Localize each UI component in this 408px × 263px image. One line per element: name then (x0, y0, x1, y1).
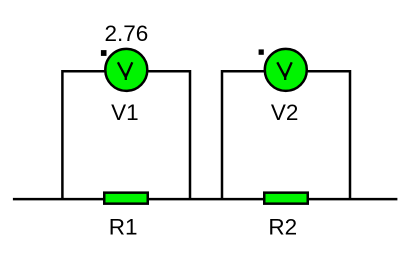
value label 2.76 (V1 reading) (105, 21, 149, 46)
voltmeter V2 (265, 49, 307, 91)
resistor R2 (263, 191, 309, 205)
wire bottom bus (13, 198, 398, 201)
label R2 (268, 214, 297, 239)
svg-text:V2: V2 (271, 100, 299, 125)
label R1 (109, 214, 138, 239)
voltmeter V2 junction dot (259, 49, 264, 54)
svg-text:V1: V1 (111, 100, 139, 125)
wire right loop (V2 across R2) (222, 71, 350, 199)
voltmeter V1 (105, 49, 147, 91)
svg-text:R2: R2 (268, 214, 297, 239)
label V2 (271, 100, 299, 125)
svg-text:2.76: 2.76 (105, 21, 149, 46)
svg-text:R1: R1 (109, 214, 138, 239)
resistor R1 (103, 191, 149, 205)
label V1 (111, 100, 139, 125)
wire left loop (V1 across R1) (62, 71, 190, 199)
voltmeter V1 junction dot (101, 50, 107, 56)
